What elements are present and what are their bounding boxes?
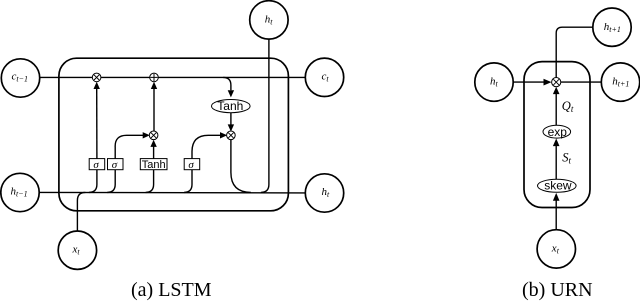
wire h/x bottom line — [39, 191, 305, 194]
svg-text:Tanh: Tanh — [142, 159, 166, 171]
arrow into exp — [553, 139, 560, 147]
gate forget-mult (circle-times) — [92, 73, 101, 82]
wire riser to top h_t — [261, 39, 269, 192]
wire mult riser to h_t+1 top — [556, 27, 593, 77]
wire branch to sigma1 — [89, 170, 97, 193]
svg-text:σ: σ — [188, 159, 194, 171]
wire tanh box to input-mult — [153, 146, 155, 159]
URN gate mult (circle-times) — [552, 78, 561, 87]
arrow into skew — [553, 193, 560, 201]
arrow into forget-mult — [94, 82, 100, 89]
wire sigma1 to forget-mult — [96, 88, 98, 159]
arrowheads — [94, 79, 560, 201]
wire exp to mult — [555, 93, 557, 125]
svg-text:σ: σ — [112, 159, 118, 171]
node h_t URN — [475, 63, 513, 101]
wire branch to sigma2 — [107, 170, 115, 193]
svg-text:(a) LSTM: (a) LSTM — [131, 279, 212, 301]
arrow into output-mult from top — [228, 124, 234, 131]
arrow into plus — [151, 82, 157, 89]
wire output-mult down to h line — [231, 139, 251, 192]
svg-text:skew: skew — [544, 179, 572, 193]
arrow into URN mult from left — [544, 79, 552, 86]
wire input-mult to plus — [153, 88, 155, 132]
wire x_t riser — [77, 192, 85, 231]
svg-text:Qt: Qt — [562, 99, 574, 114]
wire c branch to tanh ellipse — [223, 77, 231, 90]
ellipse exp — [543, 125, 571, 139]
box sigma3 — [184, 159, 200, 171]
svg-text:St: St — [562, 151, 571, 166]
node c_t — [305, 58, 343, 96]
wire branch to sigma3 — [184, 170, 192, 193]
node h_{t-1} — [1, 173, 39, 211]
arrow into output-mult from left — [220, 132, 227, 138]
tanh ellipse — [212, 99, 251, 113]
node h_t right — [305, 174, 343, 212]
gate input-mult (circle-times) — [149, 131, 158, 140]
node h_t top — [250, 1, 288, 39]
node h_t+1 right — [601, 63, 639, 101]
node x_t URN — [537, 230, 575, 268]
URN cell body rounded rectangle — [524, 62, 590, 208]
node h_t+1 top — [593, 8, 631, 46]
svg-text:exp: exp — [548, 125, 568, 139]
arrow into input-mult from left — [143, 132, 150, 138]
wire mult to h_t+1 right — [561, 81, 602, 83]
wire tanh ellipse to output-mult — [230, 113, 232, 126]
arrow into tanh ellipse — [228, 90, 234, 97]
wire cell-state line c — [39, 76, 305, 78]
box sigma2 — [108, 159, 124, 171]
box sigma1 — [89, 159, 105, 171]
LSTM cell body rounded rectangle — [59, 58, 289, 211]
arrow into input-mult from below — [150, 140, 156, 147]
arrow into URN mult from below — [553, 87, 560, 94]
ellipse skew — [538, 179, 577, 193]
wire sigma2 to input-mult — [115, 135, 144, 158]
wire x_t to skew — [555, 200, 557, 230]
node c_{t-1} — [1, 59, 39, 97]
gate output-mult (circle-times) — [227, 131, 236, 140]
box tanh — [140, 159, 167, 171]
wire sigma3 to output-mult — [192, 135, 221, 158]
gate add (circle-plus) — [150, 73, 159, 82]
node x_t — [58, 231, 96, 269]
svg-text:Tanh: Tanh — [217, 99, 243, 113]
wire h_t to mult — [513, 81, 544, 83]
wire skew to exp — [555, 145, 557, 179]
svg-text:(b) URN: (b) URN — [522, 279, 593, 301]
svg-text:σ: σ — [93, 159, 99, 171]
wire branch to tanh box — [146, 170, 154, 193]
